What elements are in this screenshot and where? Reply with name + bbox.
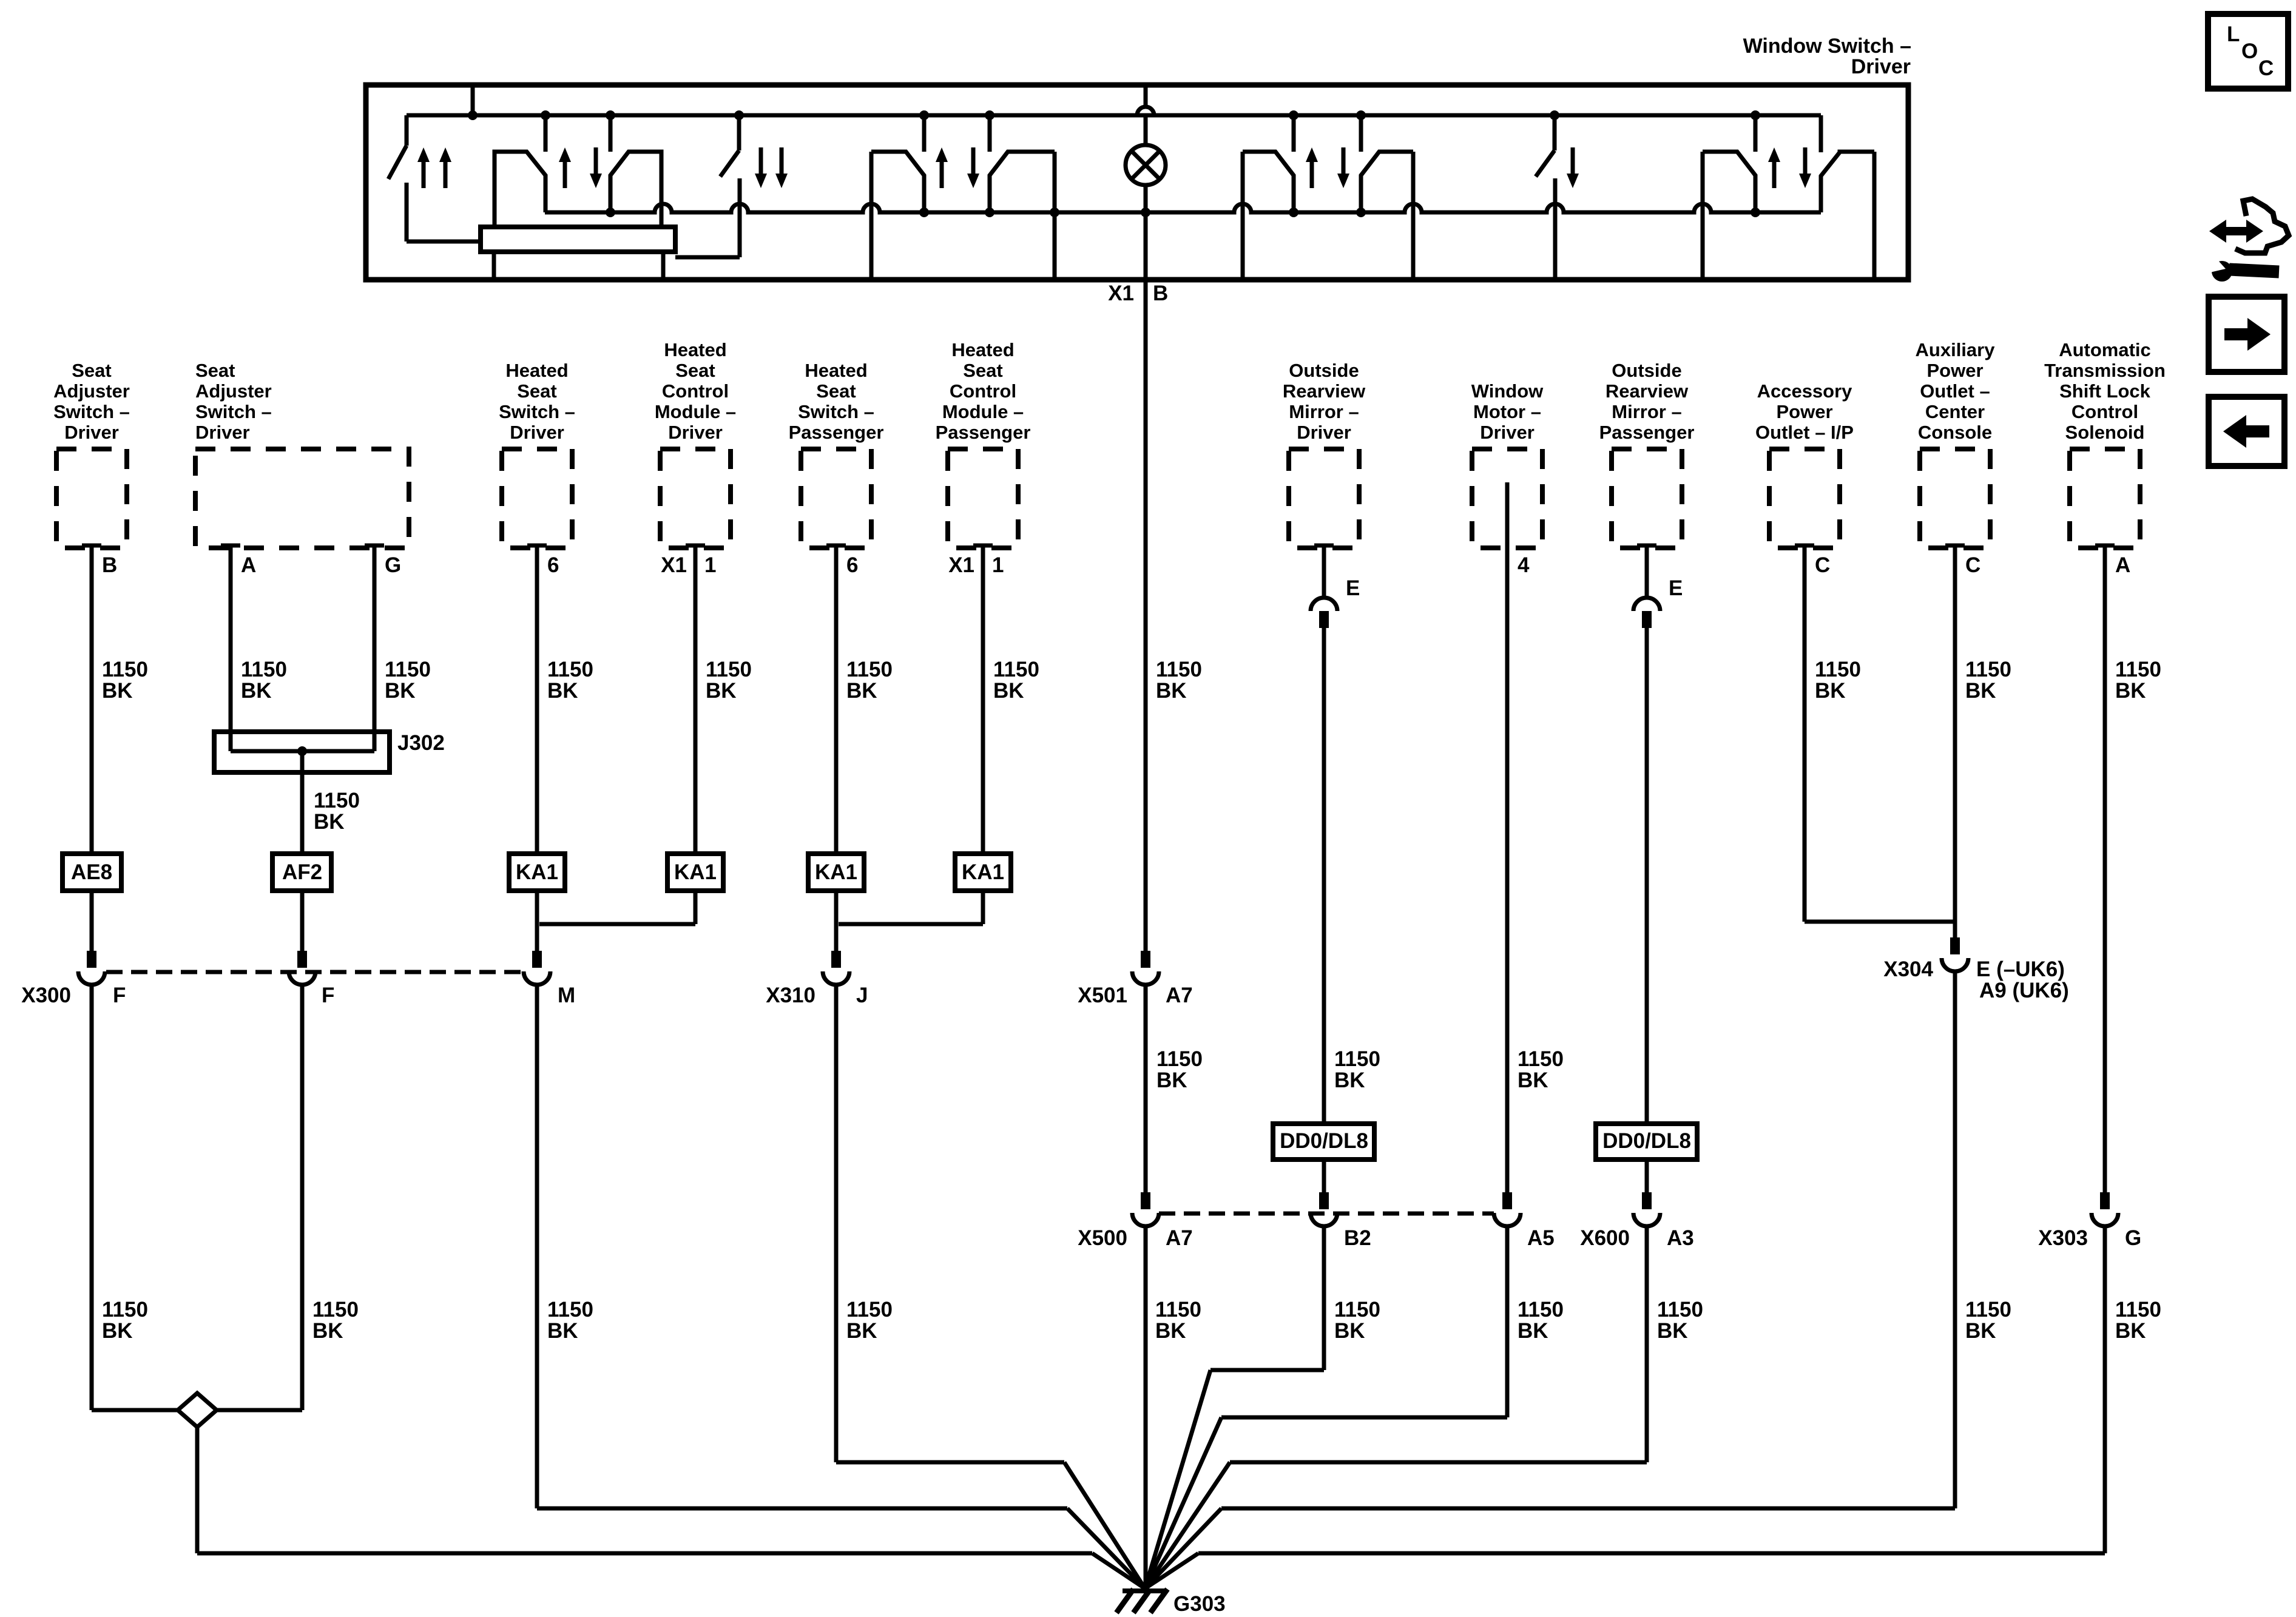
svg-text:1150: 1150	[314, 789, 360, 812]
svg-text:1150: 1150	[1334, 1298, 1380, 1322]
svg-text:M: M	[558, 984, 575, 1007]
wire B2 to ground	[1210, 1368, 1324, 1372]
connector X303 arc	[2092, 1213, 2118, 1226]
arrow S6 down	[1567, 174, 1579, 188]
connector M stub	[532, 951, 542, 968]
svg-text:Heated: Heated	[505, 360, 568, 381]
wire AE8 to X300	[90, 891, 94, 968]
wire pin A down	[229, 545, 233, 751]
arrow S2 up	[559, 147, 571, 162]
splice J302 box	[214, 732, 390, 772]
wire below X300 F	[90, 985, 94, 1410]
wire pin6 down c3	[535, 545, 539, 854]
seat adjuster switch driver box	[56, 449, 127, 548]
window motor driver box	[1472, 449, 1542, 548]
svg-text:KA1: KA1	[962, 860, 1004, 884]
svg-text:1150: 1150	[1657, 1298, 1703, 1322]
svg-text:Control: Control	[662, 380, 729, 402]
outside rearview mirror passenger box	[1612, 449, 1682, 548]
svg-text:Control: Control	[2071, 401, 2138, 422]
svg-text:Mirror –: Mirror –	[1289, 401, 1359, 422]
pin C tbar c12	[1945, 544, 1965, 548]
connector A5 stub	[1502, 1192, 1512, 1209]
svg-text:Switch –: Switch –	[195, 401, 272, 422]
wire S4 stubs	[922, 115, 927, 152]
svg-text:A3: A3	[1667, 1226, 1694, 1250]
fuse label KA1 c5	[808, 854, 864, 891]
arrow S7 down	[1799, 174, 1811, 188]
svg-text:X600: X600	[1580, 1226, 1630, 1250]
wire 1150 BK from pin B	[90, 545, 94, 854]
svg-text:Accessory: Accessory	[1757, 380, 1853, 402]
wire S3 to link bar	[675, 255, 740, 260]
svg-text:4: 4	[1518, 553, 1530, 577]
auxiliary power outlet box	[1920, 449, 1990, 548]
wire diamond to ground	[197, 1551, 1092, 1556]
node bus dot 899	[541, 110, 550, 120]
svg-text:Passenger: Passenger	[1599, 422, 1695, 443]
svg-text:B: B	[102, 553, 117, 577]
svg-text:Automatic: Automatic	[2059, 339, 2151, 360]
wire J to ground	[836, 1460, 1064, 1465]
arrow S4 up	[936, 147, 948, 162]
svg-text:1150: 1150	[102, 658, 148, 681]
svg-text:1150: 1150	[846, 658, 893, 681]
svg-text:Heated: Heated	[805, 360, 867, 381]
node return dot 1631	[985, 208, 994, 217]
switch S7 left pole	[1703, 152, 1755, 212]
svg-text:Seat: Seat	[963, 360, 1002, 381]
svg-text:BK: BK	[1156, 679, 1187, 703]
svg-text:1150: 1150	[241, 658, 287, 681]
heated seat switch passenger box	[801, 449, 871, 548]
svg-text:F: F	[113, 984, 126, 1007]
wire box to E c8	[1322, 545, 1326, 598]
wire KA1 to J	[834, 891, 839, 968]
svg-text:6: 6	[547, 553, 559, 577]
pin G tbar	[365, 544, 384, 548]
svg-text:B2: B2	[1344, 1226, 1371, 1250]
window switch driver module box	[366, 85, 1908, 280]
svg-text:E: E	[1669, 576, 1683, 600]
svg-text:1150: 1150	[1156, 1047, 1203, 1071]
wire below M	[535, 985, 539, 1508]
svg-text:AE8: AE8	[71, 860, 112, 884]
svg-text:KA1: KA1	[815, 860, 857, 884]
wire c6 merge to c5	[839, 922, 983, 927]
svg-text:Power: Power	[1776, 401, 1832, 422]
svg-text:C: C	[1965, 553, 1980, 577]
arrow S3 down 1	[755, 174, 767, 188]
svg-text:Driver: Driver	[668, 422, 723, 443]
switch S3 contact	[738, 178, 742, 257]
svg-text:Outlet – I/P: Outlet – I/P	[1755, 422, 1854, 443]
svg-text:1150: 1150	[1965, 1298, 2011, 1322]
node return dot 1738	[1050, 208, 1059, 217]
connector X304 arc	[1942, 958, 1968, 971]
wire E down c8	[1322, 628, 1326, 1124]
svg-text:Driver: Driver	[64, 422, 119, 443]
svg-text:A: A	[2115, 553, 2130, 577]
wire below J	[834, 985, 839, 1462]
wire S5 stubs	[1292, 115, 1296, 152]
svg-text:G303: G303	[1173, 1592, 1226, 1616]
connector A5 arc	[1494, 1213, 1521, 1226]
arrow S1 up 2	[439, 147, 451, 162]
wire S4 left outer	[869, 152, 874, 280]
wire to splice diamond	[92, 1408, 178, 1413]
switch S4 right pole	[990, 152, 1055, 212]
fuse label KA1 c6	[955, 854, 1011, 891]
wire c12 down	[1953, 545, 1957, 954]
node bus dot 2893	[1751, 110, 1760, 120]
svg-text:1150: 1150	[1155, 1298, 1201, 1322]
connector E c8 arc	[1311, 598, 1337, 611]
node return dot 2132	[1289, 208, 1298, 217]
svg-text:X500: X500	[1078, 1226, 1127, 1250]
svg-text:X303: X303	[2038, 1226, 2088, 1250]
node return dot 1523	[919, 208, 929, 217]
svg-text:X1: X1	[1108, 282, 1134, 305]
svg-text:BK: BK	[102, 679, 133, 703]
node bus dot 1006	[606, 110, 615, 120]
outside rearview mirror driver box	[1289, 449, 1359, 548]
svg-text:Driver: Driver	[510, 422, 564, 443]
svg-text:Module –: Module –	[942, 401, 1024, 422]
svg-text:Heated: Heated	[664, 339, 726, 360]
accessory power outlet box	[1769, 449, 1840, 548]
svg-text:1150: 1150	[706, 658, 752, 681]
wire main hop over bus	[1137, 107, 1154, 115]
svg-text:E (–UK6): E (–UK6)	[1976, 957, 2065, 981]
svg-text:J: J	[856, 984, 868, 1007]
splice diamond	[178, 1393, 217, 1427]
pin X1 1 separator	[694, 557, 698, 576]
connector X500 A7 arc	[1132, 1213, 1159, 1226]
svg-text:1150: 1150	[547, 658, 593, 681]
svg-text:DD0/DL8: DD0/DL8	[1602, 1129, 1691, 1153]
node return dot 2243	[1356, 208, 1366, 217]
pin 6 tbar c3	[527, 544, 547, 548]
switch S2 right pole	[610, 152, 661, 227]
pin A tbar	[221, 544, 240, 548]
svg-text:Window Switch –: Window Switch –	[1743, 35, 1911, 58]
wire below X303	[2103, 1226, 2107, 1553]
node bus dot 2132	[1289, 110, 1298, 120]
svg-text:Center: Center	[1925, 401, 1985, 422]
wire S2 stubs	[544, 115, 548, 152]
fuse label KA1 c4	[667, 854, 723, 891]
node bus dot 1523	[919, 110, 929, 120]
svg-text:X1: X1	[661, 553, 687, 577]
pin B tbar	[82, 544, 101, 548]
wire c11 down	[1803, 545, 1807, 922]
wire KA1 c4 down	[694, 891, 698, 924]
svg-text:Module –: Module –	[655, 401, 736, 422]
wire below bar left	[492, 252, 496, 280]
wire below X304	[1953, 971, 1957, 1508]
svg-text:Solenoid: Solenoid	[2065, 422, 2145, 443]
svg-text:B: B	[1153, 282, 1168, 305]
svg-text:Switch –: Switch –	[798, 401, 874, 422]
svg-text:1150: 1150	[2115, 658, 2161, 681]
node J302 dot	[297, 746, 307, 756]
svg-text:Outlet –: Outlet –	[1920, 380, 1990, 402]
svg-text:A7: A7	[1166, 1226, 1193, 1250]
connector J arc	[823, 971, 849, 985]
connector X501 stub	[1141, 951, 1150, 968]
svg-text:C: C	[2258, 56, 2274, 80]
wire main to ground	[1144, 1226, 1148, 1588]
svg-text:BK: BK	[2115, 679, 2146, 703]
svg-text:X1: X1	[948, 553, 974, 577]
wire X304 to ground	[1221, 1507, 1955, 1511]
svg-text:Driver: Driver	[1480, 422, 1535, 443]
svg-text:BK: BK	[1965, 1319, 1996, 1343]
svg-text:Rearview: Rearview	[1283, 380, 1366, 402]
svg-text:1150: 1150	[1334, 1047, 1380, 1071]
node return dot 2893	[1751, 208, 1760, 217]
svg-text:Rearview: Rearview	[1606, 380, 1689, 402]
arrow S7 up	[1768, 147, 1780, 162]
svg-text:6: 6	[846, 553, 858, 577]
node bus dot 2243	[1356, 110, 1366, 120]
svg-text:BK: BK	[846, 1319, 877, 1343]
wire E down c10	[1645, 628, 1649, 1124]
svg-text:A: A	[241, 553, 256, 577]
seat adjuster switch driver 2 box	[195, 449, 409, 548]
wire below bar right	[661, 252, 666, 280]
wire A5 to ground	[1221, 1416, 1507, 1420]
svg-text:1150: 1150	[1815, 658, 1861, 681]
svg-text:C: C	[1815, 553, 1830, 577]
svg-text:BK: BK	[993, 679, 1024, 703]
svg-text:Seat: Seat	[195, 360, 235, 381]
node bus dot 1631	[985, 110, 994, 120]
option label DD0/DL8 c8	[1273, 1124, 1374, 1160]
pin E tbar c8	[1314, 544, 1334, 548]
svg-text:Seat: Seat	[675, 360, 715, 381]
svg-text:Control: Control	[950, 380, 1016, 402]
lamp illumination	[1126, 145, 1166, 185]
wire main above bus	[1144, 85, 1148, 107]
pin X1 B separator	[1144, 284, 1148, 303]
arrow S2 down	[590, 174, 602, 188]
svg-text:1150: 1150	[2115, 1298, 2161, 1322]
node bus dot 2562	[1550, 110, 1559, 120]
svg-text:BK: BK	[1334, 1068, 1365, 1092]
switch S2 left pole	[495, 152, 545, 227]
svg-text:DD0/DL8: DD0/DL8	[1280, 1129, 1368, 1153]
pin C tbar c11	[1795, 544, 1814, 548]
svg-text:Seat: Seat	[72, 360, 111, 381]
svg-text:X501: X501	[1078, 984, 1127, 1007]
pin X1 1 tbar	[686, 544, 705, 548]
wire KA1 to M	[535, 891, 539, 968]
svg-text:1150: 1150	[1965, 658, 2011, 681]
arrow S5 down	[1337, 174, 1349, 188]
ground G303 symbol	[1123, 1588, 1166, 1593]
svg-text:BK: BK	[102, 1319, 133, 1343]
svg-text:BK: BK	[385, 679, 416, 703]
connector E c8 stub	[1319, 611, 1329, 628]
link bar rectangle	[481, 227, 675, 252]
svg-text:Heated: Heated	[951, 339, 1014, 360]
svg-text:Switch –: Switch –	[499, 401, 575, 422]
connector X303 stub	[2100, 1192, 2110, 1209]
svg-text:F: F	[322, 984, 334, 1007]
arrow S5 up	[1306, 147, 1318, 162]
svg-text:BK: BK	[1518, 1068, 1548, 1092]
switch S1 contact	[405, 183, 409, 241]
connector X501 arc	[1132, 971, 1159, 985]
connector X500 A7 stub	[1141, 1192, 1150, 1209]
option label DD0/DL8 c10	[1596, 1124, 1697, 1160]
svg-text:1150: 1150	[1518, 1298, 1564, 1322]
svg-text:BK: BK	[1334, 1319, 1365, 1343]
wire diamond down	[195, 1427, 200, 1553]
svg-text:BK: BK	[547, 679, 578, 703]
svg-text:1: 1	[992, 553, 1004, 577]
node return dot 1888	[1141, 208, 1150, 217]
pin A tbar c13	[2095, 544, 2115, 548]
pin X1 1 tbar c6	[973, 544, 993, 548]
connector X304 stub	[1950, 937, 1960, 954]
svg-text:1: 1	[704, 553, 716, 577]
svg-text:Driver: Driver	[195, 422, 250, 443]
icon wrench with double arrow	[2223, 227, 2249, 235]
connector X300 F arc	[78, 971, 105, 985]
wire A3 to ground	[1230, 1460, 1647, 1465]
svg-text:L: L	[2227, 22, 2240, 46]
wire c4 down	[694, 545, 698, 854]
connector E c10 arc	[1633, 598, 1660, 611]
switch S3 blade	[737, 115, 741, 150]
wire S7 left outer	[1701, 152, 1705, 280]
svg-text:1150: 1150	[1156, 658, 1202, 681]
heated seat switch driver box	[502, 449, 572, 548]
svg-text:Switch –: Switch –	[53, 401, 130, 422]
connector X600 A3 stub	[1642, 1192, 1652, 1209]
wire main lamp to bottom	[1144, 185, 1148, 280]
svg-text:BK: BK	[1815, 679, 1846, 703]
connector M arc	[524, 971, 550, 985]
arrow S4 down	[967, 174, 979, 188]
switch S1 express-up blade	[405, 115, 409, 146]
svg-text:BK: BK	[2115, 1319, 2146, 1343]
svg-text:BK: BK	[241, 679, 272, 703]
svg-text:1150: 1150	[102, 1298, 148, 1322]
connector E c10 stub	[1642, 611, 1652, 628]
connector B2 stub	[1319, 1192, 1329, 1209]
svg-text:A5: A5	[1527, 1226, 1555, 1250]
switch S4 left pole	[871, 152, 924, 212]
fuse label AF2	[272, 854, 331, 891]
wire box to E c10	[1645, 545, 1649, 598]
node return dot 1006	[606, 208, 615, 217]
fuse label KA1 c3	[509, 854, 565, 891]
shift lock solenoid box	[2070, 449, 2140, 548]
svg-text:Seat: Seat	[517, 380, 556, 402]
switch S7 right pole	[1821, 152, 1874, 212]
wire KA1 c6 down	[981, 891, 985, 924]
wire below A5	[1505, 1226, 1510, 1417]
connector B2 arc	[1311, 1213, 1337, 1226]
svg-text:Outside: Outside	[1612, 360, 1681, 381]
heated seat control module driver box	[660, 449, 731, 548]
switch S6 blade	[1553, 115, 1557, 150]
wire pin G down	[373, 545, 377, 751]
svg-text:X310: X310	[766, 984, 815, 1007]
wire X300 dashed	[106, 970, 522, 974]
wire S4 right outer	[1053, 152, 1057, 280]
icon prev-page arrow box	[2209, 397, 2284, 466]
wire X501 to X500	[1144, 985, 1148, 1209]
svg-text:Passenger: Passenger	[789, 422, 884, 443]
wire below F2	[300, 985, 305, 1410]
node bus dot 779	[468, 110, 478, 120]
icon next-page arrow box	[2209, 297, 2284, 372]
svg-text:Driver: Driver	[1297, 422, 1351, 443]
arrow S3 down 2	[775, 174, 788, 188]
svg-text:BK: BK	[547, 1319, 578, 1343]
svg-text:X304: X304	[1883, 957, 1933, 981]
svg-text:Adjuster: Adjuster	[53, 380, 130, 402]
wire motor down	[1505, 482, 1510, 1209]
wire below B2	[1322, 1226, 1326, 1370]
svg-text:KA1: KA1	[674, 860, 717, 884]
wire stub from top edge	[471, 85, 475, 115]
svg-text:G: G	[2125, 1226, 2141, 1250]
wire main X1 B down	[1144, 280, 1148, 968]
svg-text:E: E	[1346, 576, 1360, 600]
connector X300 F stub	[87, 951, 96, 968]
svg-text:Seat: Seat	[816, 380, 856, 402]
wire J302 out	[300, 751, 305, 854]
wire S6 contact	[1553, 178, 1558, 280]
fuse label AE8	[62, 854, 121, 891]
wire S7 right outer	[1872, 152, 1877, 280]
svg-text:G: G	[385, 553, 401, 577]
svg-text:BK: BK	[1156, 1068, 1187, 1092]
wire DD0 to B2	[1322, 1160, 1326, 1209]
wire top bus	[407, 113, 1821, 118]
connector F2 arc	[289, 971, 316, 985]
svg-text:Power: Power	[1926, 360, 1983, 381]
wire c11 to X304	[1805, 920, 1955, 924]
switch S5 right pole	[1361, 152, 1413, 212]
connector J stub	[831, 951, 841, 968]
svg-text:BK: BK	[846, 679, 877, 703]
svg-text:A9 (UK6): A9 (UK6)	[1979, 979, 2069, 1002]
svg-text:Transmission: Transmission	[2044, 360, 2166, 381]
svg-text:Mirror –: Mirror –	[1612, 401, 1681, 422]
heated seat control module passenger box	[948, 449, 1018, 548]
node bus dot 1218	[734, 110, 744, 120]
wire below A3	[1645, 1226, 1649, 1462]
pin X1 1 separator c6	[981, 557, 985, 576]
wire DD0 to A3	[1645, 1160, 1649, 1209]
svg-text:AF2: AF2	[282, 860, 322, 884]
svg-text:BK: BK	[312, 1319, 343, 1343]
wire c5 down	[834, 545, 839, 854]
wire c4 merge to c3	[539, 922, 695, 927]
svg-text:BK: BK	[1155, 1319, 1186, 1343]
svg-text:A7: A7	[1166, 984, 1193, 1007]
wire X500 dashed	[1159, 1212, 1494, 1216]
wire X303 to ground	[1198, 1551, 2105, 1556]
svg-text:Auxiliary: Auxiliary	[1916, 339, 1996, 360]
